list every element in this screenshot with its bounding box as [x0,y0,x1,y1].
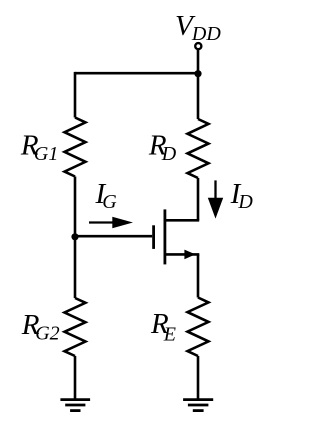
svg-text:G2: G2 [35,323,59,345]
svg-text:G1: G1 [34,143,58,165]
svg-text:D: D [161,143,177,165]
svg-text:D: D [237,191,253,213]
svg-text:E: E [163,323,176,345]
svg-text:DD: DD [191,23,221,45]
svg-text:G: G [102,191,117,213]
